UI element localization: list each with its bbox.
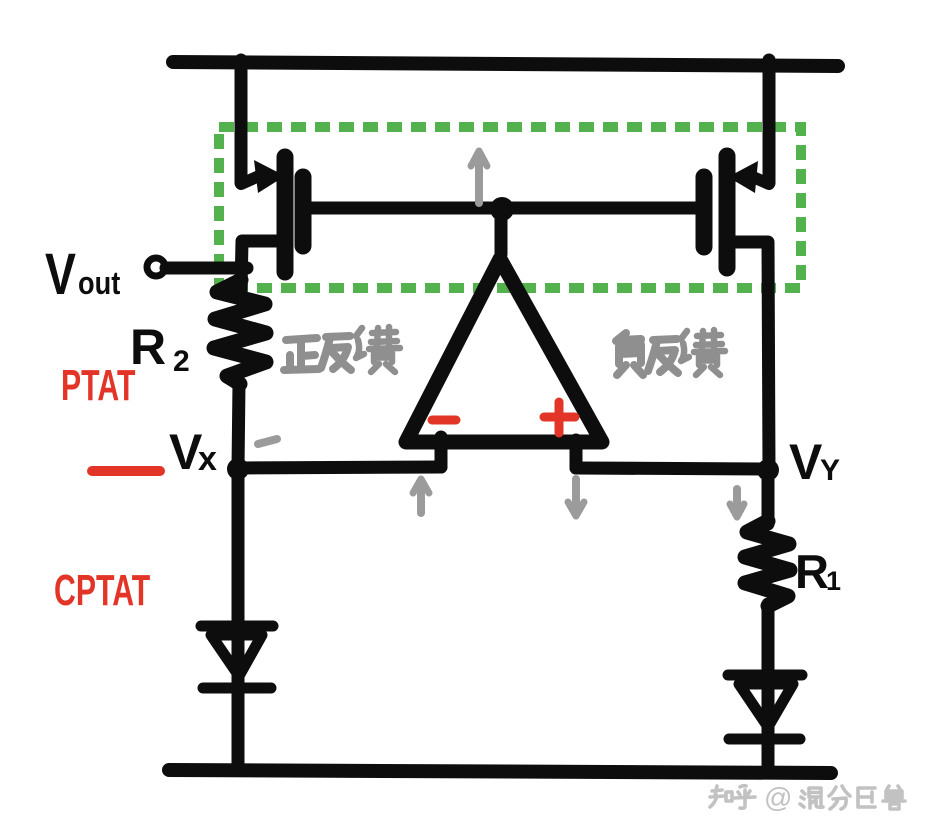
wire: M2 drain elbow down to Vy [729,242,769,469]
label 正反馈 (gray, drawn strokes) [284,327,400,372]
svg-text:R: R [795,545,829,598]
transistor M2 gate bar [696,177,713,247]
diode D2 cathode bar [729,734,800,745]
wire: plus input to node Vy [576,468,768,469]
wire: gate line connecting M1 and M2 [308,202,699,215]
node: gate node dot [490,197,514,221]
svg-text:1: 1 [826,566,841,596]
resistor R1 zigzag [745,521,790,606]
gray current arrow (top middle, up) [475,155,483,203]
svg-text:V: V [789,434,823,490]
gray minus mark near Vx [258,439,277,444]
diode D2 anode bar [728,670,802,681]
wire: op-amp minus input stub [435,437,448,467]
transistor M2 (right PMOS) source arrow [753,177,769,184]
wire: Vx to op-amp minus input [238,467,441,468]
Vout terminal circle [147,258,165,276]
wire: R2 to node Vx [238,383,239,468]
svg-text:Y: Y [820,454,840,487]
diode D1 anode bar [201,621,273,632]
red underline near Vx [92,466,160,476]
wire: Vout to drain [166,262,247,275]
resistor R2 zigzag [214,280,266,384]
gray current arrow (below minus input, up) [417,483,425,513]
op-amp U1 triangle [406,259,602,442]
ground bottom rail [169,770,831,773]
VDD top rail [173,62,838,66]
wire: right source drop from VDD [763,60,776,183]
svg-text:2: 2 [173,345,190,378]
svg-text:out: out [78,266,120,302]
transistor M1 channel bar [277,157,294,272]
op-amp plus sign [544,413,575,422]
label 负反馈 (gray, drawn strokes) [616,330,725,375]
transistor M1 gate bar [295,177,312,246]
gray current arrow (at Vy, down) [733,489,741,512]
node Vx dot [227,458,249,480]
transistor M2 channel bar [719,156,736,268]
wire: op-amp plus input stub [570,440,583,468]
current-mirror highlight box (green dashed) [219,127,801,288]
gray current arrow (below plus input, down) [572,479,580,511]
svg-text:x: x [198,440,217,478]
wire: node to op-amp apex [495,209,508,254]
svg-text:V: V [45,242,76,307]
wire: Vx down to diode D1 [232,469,245,770]
diode D2 triangle [739,684,793,727]
transistor M1 (left PMOS) source arrow [241,176,259,184]
wire: R1 to diode D2 [762,604,775,770]
wire: Vy down to R1 [762,470,775,524]
svg-text:CPTAT: CPTAT [54,565,150,614]
diode D1 cathode bar [203,683,271,694]
op-amp minus sign [432,416,456,425]
watermark 知乎 @混分巨兽 (light gray, drawn strokes) [710,786,905,809]
wire: M1 drain elbow down to Vout/R2 [241,241,283,290]
diode D1 triangle [211,635,262,676]
svg-text:PTAT: PTAT [61,360,135,409]
svg-text:@: @ [764,782,792,813]
node Vy dot [757,459,779,481]
wire: left source drop from VDD [235,60,248,183]
